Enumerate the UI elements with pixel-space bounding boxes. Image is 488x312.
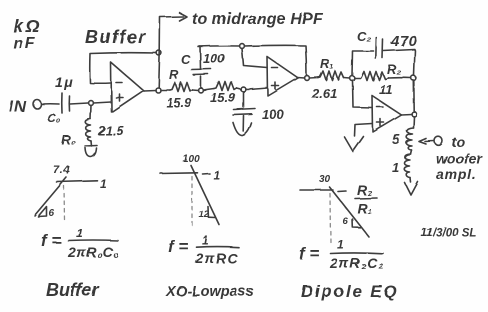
resistor 5 <box>406 128 413 150</box>
wire capacitor C to top rail <box>199 47 202 70</box>
svg-text:1: 1 <box>100 177 107 191</box>
wire top rail to U2 output <box>198 45 240 48</box>
svg-text:Buffer: Buffer <box>46 280 100 300</box>
node D on rail <box>240 44 245 49</box>
wire IN to C0 <box>42 103 59 105</box>
node C junction <box>198 88 203 93</box>
resistor R1 <box>318 71 344 80</box>
op-amp U2 <box>267 57 298 96</box>
svg-text:to: to <box>452 134 466 150</box>
wire node G down to U3 - input <box>353 81 373 108</box>
wire node C to 15.9 #2 <box>203 89 214 91</box>
wire right rail down <box>414 50 415 76</box>
wire U3 + input to ground <box>355 124 373 137</box>
svg-text:f =: f = <box>299 244 319 263</box>
wire node E down to capacitor 100 <box>243 92 245 108</box>
bode plot 1 slope <box>35 178 67 216</box>
svg-text:470: 470 <box>390 33 418 50</box>
ground under R0 <box>90 141 93 146</box>
wire resistor 1 to ground <box>409 178 412 183</box>
bode plot 2 dashed vertical <box>191 177 193 227</box>
resistor R2 <box>355 72 389 81</box>
svg-text:11: 11 <box>379 82 393 97</box>
wire node A down to R0 <box>90 106 93 120</box>
ground at U3 + input <box>345 137 364 152</box>
resistor R <box>170 83 192 92</box>
svg-text:6: 6 <box>49 208 55 219</box>
bode plot 3 dashed vertical <box>329 194 332 244</box>
svg-text:f =: f = <box>168 237 188 256</box>
resistor R0 <box>85 119 91 141</box>
wire U2 output to node F <box>298 77 305 80</box>
svg-text:1: 1 <box>337 238 344 252</box>
formula 2 bar <box>197 246 239 249</box>
bode plot 1 slope marker <box>38 207 47 217</box>
svg-text:1: 1 <box>202 234 209 248</box>
svg-text:7.4: 7.4 <box>54 165 71 177</box>
ground under resistor 1 <box>405 182 418 195</box>
bode plot 3 slope <box>330 187 370 237</box>
wire node B to R <box>161 89 171 91</box>
node H junction <box>411 76 416 81</box>
svg-text:15.9: 15.9 <box>166 95 192 110</box>
svg-text:6: 6 <box>343 216 349 227</box>
svg-text:1μ: 1μ <box>55 74 74 90</box>
svg-text:ampl.: ampl. <box>436 166 477 182</box>
svg-text:2πR₀C₀: 2πR₀C₀ <box>67 244 119 260</box>
arrowhead to midrange <box>179 13 187 21</box>
capacitor C plates <box>193 73 208 76</box>
wire node A to op-amp1 + input <box>94 102 112 103</box>
svg-text:15.9: 15.9 <box>210 90 236 105</box>
wire U3 output to node I <box>401 113 412 116</box>
svg-text:30: 30 <box>319 174 331 185</box>
wire node C up to capacitor C <box>200 76 202 88</box>
svg-text:2.61: 2.61 <box>311 86 337 101</box>
node B U1 output <box>156 88 161 93</box>
svg-text:R₀: R₀ <box>61 132 76 147</box>
bode plot 2 slope marker <box>208 207 215 218</box>
bode plot 3 horizontal <box>300 189 333 191</box>
svg-text:nF: nF <box>13 35 37 52</box>
bode plot 1 corner <box>57 181 98 182</box>
svg-text:C₀: C₀ <box>47 111 61 125</box>
wire U1 feedback output to - input <box>90 53 157 84</box>
svg-text:R₁: R₁ <box>357 200 372 216</box>
svg-text:f =: f = <box>41 231 61 250</box>
node on feedback riser <box>157 51 162 56</box>
svg-text:R: R <box>169 67 179 82</box>
wire R1 to node G <box>344 77 350 80</box>
bode plot 3 fraction bar <box>355 197 377 200</box>
bode plot 2 level dash <box>203 173 210 176</box>
svg-text:R₁: R₁ <box>320 56 334 71</box>
wire node E to U2 + input <box>246 88 268 90</box>
wire to node E <box>237 88 241 89</box>
ground under capacitor 100 <box>233 123 252 136</box>
wire node F to R1 <box>310 77 319 80</box>
wire riser node B to midrange tap <box>159 17 183 88</box>
wire capacitor to ground <box>242 116 244 132</box>
wire node D down to U2 - input <box>242 49 267 68</box>
op-amp U3 <box>372 96 401 132</box>
node F U2 output <box>305 76 310 81</box>
svg-text:100: 100 <box>262 107 284 122</box>
wire node I down to resistor 5 <box>413 117 416 129</box>
output tap arrow <box>419 139 426 145</box>
output tap terminal circle <box>435 137 443 146</box>
svg-text:kΩ: kΩ <box>13 16 42 36</box>
svg-text:1: 1 <box>392 160 399 175</box>
bode plot 3 slope marker <box>352 219 360 228</box>
svg-text:100: 100 <box>183 154 200 165</box>
svg-text:5: 5 <box>392 131 400 147</box>
wire C0 to node A <box>70 103 88 104</box>
wire R to node C <box>192 89 198 92</box>
formula 1 bar <box>68 239 118 242</box>
svg-text:C: C <box>181 52 191 67</box>
svg-text:1: 1 <box>213 168 220 182</box>
wire node H down to node I <box>413 81 415 112</box>
svg-text:1: 1 <box>76 226 83 240</box>
resistor 1 <box>404 154 410 178</box>
svg-text:XO-Lowpass: XO-Lowpass <box>165 284 254 300</box>
svg-text:11/3/00 SL: 11/3/00 SL <box>421 228 476 240</box>
svg-text:Dipole EQ: Dipole EQ <box>301 282 398 301</box>
wire resistor 5 to resistor 1 <box>411 150 412 154</box>
wire C2 to right rail <box>383 50 415 52</box>
svg-text:2πRC: 2πRC <box>195 250 239 266</box>
op-amp U1 <box>111 63 144 113</box>
formula 3 bar <box>331 252 384 255</box>
node E junction <box>241 87 246 92</box>
svg-text:to midrange HPF: to midrange HPF <box>192 11 324 28</box>
node I U3 output <box>412 112 417 117</box>
node A junction <box>89 101 94 106</box>
svg-text:IN: IN <box>9 99 27 116</box>
capacitor C2 plates <box>375 38 378 59</box>
wire U1 output to node B <box>144 89 156 92</box>
svg-text:21.5: 21.5 <box>97 123 124 138</box>
wire node G up to C2 <box>352 51 374 76</box>
bode plot 2 horizontal <box>160 172 198 175</box>
svg-text:100: 100 <box>203 51 225 66</box>
bode plot 3 level dash <box>338 190 346 193</box>
svg-text:Buffer: Buffer <box>85 27 147 47</box>
svg-text:C₂: C₂ <box>357 29 371 44</box>
svg-text:R₂: R₂ <box>357 182 372 198</box>
bode plot 1 dashed vertical <box>63 186 66 220</box>
svg-text:woofer: woofer <box>436 151 483 167</box>
bode plot 2 slope <box>191 166 219 225</box>
svg-text:R₂: R₂ <box>387 62 401 77</box>
svg-text:2πR₂C₂: 2πR₂C₂ <box>329 255 385 271</box>
resistor 15.9 #2 <box>214 82 237 91</box>
capacitor 100 to ground plates <box>234 109 256 110</box>
wire R2 to node H <box>389 77 412 79</box>
node G junction <box>350 76 355 81</box>
capacitor C0 <box>61 93 63 113</box>
